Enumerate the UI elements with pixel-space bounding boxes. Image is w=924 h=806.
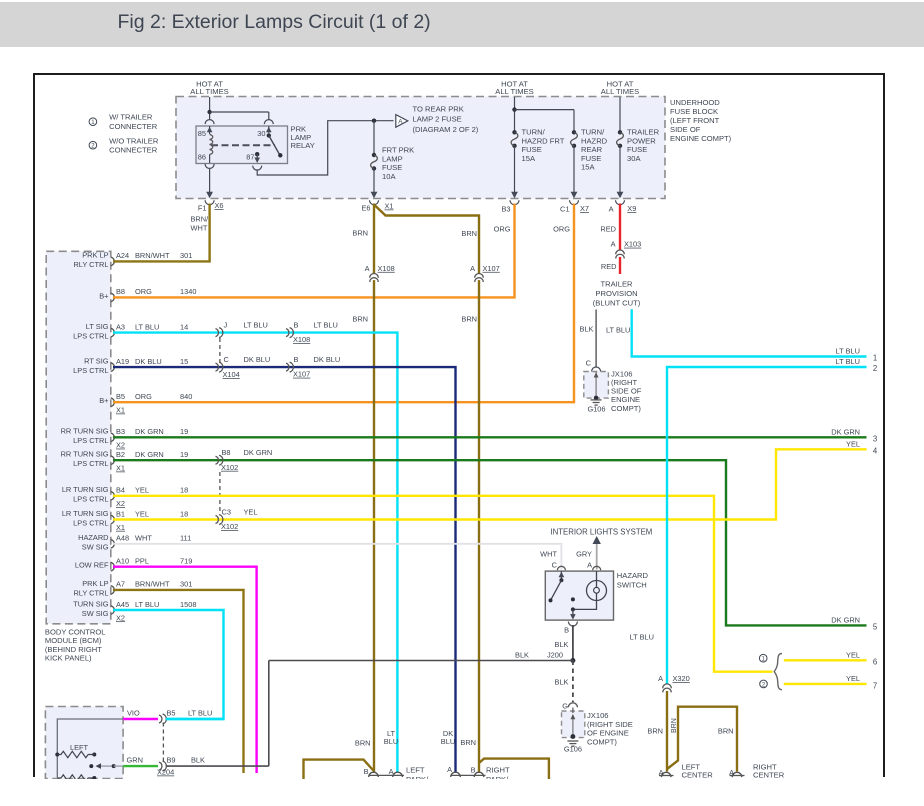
svg-text:BRN: BRN bbox=[460, 738, 476, 747]
svg-text:C1: C1 bbox=[560, 204, 569, 213]
svg-text:A: A bbox=[611, 240, 616, 249]
svg-text:TRAILER: TRAILER bbox=[627, 128, 660, 137]
svg-text:B: B bbox=[564, 626, 569, 635]
svg-text:LAMP 2 FUSE: LAMP 2 FUSE bbox=[413, 115, 462, 124]
svg-text:HAZRD FRT: HAZRD FRT bbox=[522, 136, 565, 145]
svg-text:GRN: GRN bbox=[127, 756, 143, 765]
svg-text:B3: B3 bbox=[501, 204, 510, 213]
svg-text:C: C bbox=[586, 359, 592, 368]
svg-text:B4: B4 bbox=[116, 486, 125, 495]
svg-text:PROVISION: PROVISION bbox=[595, 289, 637, 298]
svg-text:DK GRN: DK GRN bbox=[831, 615, 860, 624]
svg-text:DK BLU: DK BLU bbox=[244, 355, 271, 364]
svg-text:TRAILER: TRAILER bbox=[600, 280, 633, 289]
svg-text:LAMP: LAMP bbox=[382, 154, 403, 163]
svg-text:LT BLU: LT BLU bbox=[836, 357, 860, 366]
svg-text:ORG: ORG bbox=[135, 392, 152, 401]
svg-text:X107: X107 bbox=[293, 370, 310, 379]
svg-text:COMPT): COMPT) bbox=[611, 404, 641, 413]
svg-text:BRN: BRN bbox=[461, 229, 477, 238]
svg-text:BRN/: BRN/ bbox=[191, 214, 210, 223]
svg-text:ENGINE COMPT): ENGINE COMPT) bbox=[670, 134, 732, 143]
svg-text:BRN/WHT: BRN/WHT bbox=[135, 580, 170, 589]
svg-text:B8: B8 bbox=[116, 287, 125, 296]
svg-text:FUSE BLOCK: FUSE BLOCK bbox=[670, 107, 718, 116]
svg-text:REAR: REAR bbox=[581, 145, 603, 154]
svg-text:TURN SIG: TURN SIG bbox=[73, 599, 109, 608]
svg-text:BLK: BLK bbox=[555, 678, 569, 687]
svg-text:X103: X103 bbox=[624, 240, 641, 249]
svg-text:BRN: BRN bbox=[718, 727, 734, 736]
svg-text:ORG: ORG bbox=[494, 225, 511, 234]
svg-text:BRN: BRN bbox=[352, 315, 368, 324]
svg-text:DK BLU: DK BLU bbox=[135, 357, 162, 366]
svg-text:FUSE: FUSE bbox=[382, 163, 402, 172]
svg-text:DK BLU: DK BLU bbox=[314, 355, 341, 364]
svg-text:4: 4 bbox=[873, 446, 878, 455]
svg-text:MODULE (BCM): MODULE (BCM) bbox=[45, 636, 102, 645]
svg-text:3: 3 bbox=[873, 434, 877, 443]
svg-text:X1: X1 bbox=[385, 202, 394, 211]
svg-text:RR TURN SIG: RR TURN SIG bbox=[61, 427, 109, 436]
svg-text:YEL: YEL bbox=[846, 674, 860, 683]
svg-text:DK GRN: DK GRN bbox=[244, 448, 273, 457]
svg-text:A: A bbox=[587, 561, 592, 570]
svg-text:BRN: BRN bbox=[461, 315, 477, 324]
svg-text:LEFT: LEFT bbox=[70, 743, 89, 752]
svg-text:SW SIG: SW SIG bbox=[82, 609, 109, 618]
svg-text:X204: X204 bbox=[157, 768, 174, 777]
svg-text:FUSE: FUSE bbox=[581, 154, 601, 163]
svg-text:301: 301 bbox=[180, 251, 192, 260]
svg-text:C: C bbox=[552, 561, 558, 570]
svg-text:KICK PANEL): KICK PANEL) bbox=[45, 654, 92, 663]
svg-text:A24: A24 bbox=[116, 251, 129, 260]
svg-text:ORG: ORG bbox=[553, 225, 570, 234]
svg-text:LT BLU: LT BLU bbox=[244, 321, 268, 330]
svg-text:(RIGHT SIDE: (RIGHT SIDE bbox=[587, 720, 633, 729]
svg-text:FRT PRK: FRT PRK bbox=[382, 146, 414, 155]
svg-text:GRY: GRY bbox=[576, 550, 592, 559]
svg-text:30A: 30A bbox=[627, 154, 641, 163]
svg-text:19: 19 bbox=[180, 450, 188, 459]
svg-text:A: A bbox=[447, 765, 452, 774]
svg-text:X1: X1 bbox=[116, 523, 125, 532]
svg-text:FUSE: FUSE bbox=[627, 145, 647, 154]
svg-text:B9: B9 bbox=[167, 756, 176, 765]
svg-text:RED: RED bbox=[601, 262, 617, 271]
svg-text:X2: X2 bbox=[116, 441, 125, 450]
svg-text:A19: A19 bbox=[116, 357, 129, 366]
svg-text:PRK LP: PRK LP bbox=[82, 251, 108, 260]
svg-text:719: 719 bbox=[180, 557, 192, 566]
svg-text:BRN: BRN bbox=[671, 718, 678, 733]
svg-text:DK GRN: DK GRN bbox=[135, 450, 164, 459]
svg-text:7: 7 bbox=[873, 681, 877, 690]
svg-text:BRN: BRN bbox=[352, 229, 368, 238]
svg-text:14: 14 bbox=[180, 322, 188, 331]
svg-text:LT BLU: LT BLU bbox=[630, 633, 654, 642]
svg-text:B8: B8 bbox=[222, 448, 231, 457]
svg-text:RLY CTRL: RLY CTRL bbox=[73, 589, 108, 598]
svg-text:B3: B3 bbox=[116, 427, 125, 436]
svg-text:85: 85 bbox=[198, 129, 206, 138]
svg-text:RED: RED bbox=[600, 225, 616, 234]
svg-text:15A: 15A bbox=[522, 154, 536, 163]
svg-text:RLY CTRL: RLY CTRL bbox=[73, 260, 108, 269]
svg-text:HAZRD: HAZRD bbox=[581, 136, 608, 145]
svg-text:LT BLU: LT BLU bbox=[135, 322, 159, 331]
svg-text:X1: X1 bbox=[116, 464, 125, 473]
svg-text:JX106: JX106 bbox=[587, 711, 609, 720]
svg-text:A48: A48 bbox=[116, 534, 129, 543]
svg-text:A45: A45 bbox=[116, 600, 129, 609]
svg-text:ALL TIMES: ALL TIMES bbox=[601, 87, 639, 96]
svg-text:HAZARD: HAZARD bbox=[617, 571, 649, 580]
svg-text:BRN: BRN bbox=[647, 727, 663, 736]
svg-text:15: 15 bbox=[180, 357, 188, 366]
svg-text:A: A bbox=[470, 264, 475, 273]
svg-text:CONNECTER: CONNECTER bbox=[109, 122, 158, 131]
svg-text:18: 18 bbox=[180, 509, 188, 518]
svg-text:E6: E6 bbox=[361, 204, 370, 213]
svg-text:X1: X1 bbox=[116, 406, 125, 415]
svg-text:TURN/: TURN/ bbox=[581, 128, 605, 137]
svg-text:LPS CTRL: LPS CTRL bbox=[73, 366, 108, 375]
svg-text:86: 86 bbox=[198, 153, 206, 162]
svg-text:B1: B1 bbox=[116, 509, 125, 518]
svg-text:BODY CONTROL: BODY CONTROL bbox=[45, 628, 106, 637]
svg-text:SIDE OF: SIDE OF bbox=[670, 125, 701, 134]
svg-text:BRN/WHT: BRN/WHT bbox=[135, 251, 170, 260]
svg-text:BLU: BLU bbox=[441, 737, 455, 746]
svg-text:LT BLU: LT BLU bbox=[606, 326, 630, 335]
svg-text:19: 19 bbox=[180, 427, 188, 436]
svg-text:WHT: WHT bbox=[135, 534, 152, 543]
svg-text:RIGHT: RIGHT bbox=[486, 766, 510, 775]
svg-text:Fig 2: Exterior Lamps Circuit: Fig 2: Exterior Lamps Circuit (1 of 2) bbox=[118, 11, 431, 33]
svg-text:BLK: BLK bbox=[191, 756, 205, 765]
svg-text:CENTER: CENTER bbox=[753, 771, 785, 780]
svg-text:J: J bbox=[224, 321, 228, 330]
svg-text:LT BLU: LT BLU bbox=[836, 347, 860, 356]
svg-text:X108: X108 bbox=[293, 335, 310, 344]
svg-text:X9: X9 bbox=[627, 204, 636, 213]
svg-text:LPS CTRL: LPS CTRL bbox=[73, 436, 108, 445]
svg-text:A3: A3 bbox=[116, 322, 125, 331]
svg-text:WHT: WHT bbox=[540, 550, 557, 559]
svg-text:ORG: ORG bbox=[135, 287, 152, 296]
svg-text:W/ TRAILER: W/ TRAILER bbox=[109, 113, 153, 122]
svg-text:A: A bbox=[659, 768, 664, 777]
svg-text:X2: X2 bbox=[116, 613, 125, 622]
svg-text:ALL TIMES: ALL TIMES bbox=[190, 87, 228, 96]
svg-text:W/O TRAILER: W/O TRAILER bbox=[109, 136, 159, 145]
svg-text:PRK LP: PRK LP bbox=[82, 579, 108, 588]
svg-text:BLK: BLK bbox=[555, 640, 569, 649]
svg-text:18: 18 bbox=[180, 486, 188, 495]
svg-text:LT BLU: LT BLU bbox=[314, 321, 338, 330]
svg-text:BLK: BLK bbox=[580, 325, 594, 334]
svg-text:B: B bbox=[471, 766, 476, 775]
svg-text:CENTER: CENTER bbox=[682, 771, 714, 780]
svg-text:POWER: POWER bbox=[627, 136, 656, 145]
svg-text:YEL: YEL bbox=[846, 650, 860, 659]
svg-text:F1: F1 bbox=[198, 204, 207, 213]
svg-text:G: G bbox=[562, 702, 568, 711]
svg-text:(BEHIND RIGHT: (BEHIND RIGHT bbox=[45, 645, 102, 654]
svg-text:LT SIG: LT SIG bbox=[86, 322, 109, 331]
svg-text:YEL: YEL bbox=[135, 509, 149, 518]
svg-text:LPS CTRL: LPS CTRL bbox=[73, 518, 108, 527]
svg-text:PPL: PPL bbox=[135, 557, 149, 566]
svg-text:X320: X320 bbox=[673, 674, 690, 683]
svg-text:LOW REF: LOW REF bbox=[75, 561, 109, 570]
svg-text:B+: B+ bbox=[99, 396, 108, 405]
svg-text:HAZARD: HAZARD bbox=[78, 533, 108, 542]
svg-text:DK GRN: DK GRN bbox=[831, 427, 860, 436]
svg-text:B5: B5 bbox=[167, 709, 176, 718]
svg-text:BLU: BLU bbox=[384, 737, 398, 746]
svg-text:LT BLU: LT BLU bbox=[188, 709, 212, 718]
svg-text:C: C bbox=[224, 355, 230, 364]
svg-text:SWITCH: SWITCH bbox=[617, 581, 647, 590]
svg-text:X2: X2 bbox=[116, 499, 125, 508]
svg-text:A10: A10 bbox=[116, 557, 129, 566]
svg-text:A: A bbox=[365, 264, 370, 273]
svg-text:15A: 15A bbox=[581, 163, 595, 172]
svg-text:LT BLU: LT BLU bbox=[135, 600, 159, 609]
svg-text:840: 840 bbox=[180, 392, 192, 401]
svg-text:YEL: YEL bbox=[244, 508, 258, 517]
svg-text:RR TURN SIG: RR TURN SIG bbox=[61, 449, 109, 458]
svg-text:B5: B5 bbox=[116, 392, 125, 401]
svg-text:G106: G106 bbox=[564, 745, 582, 754]
svg-text:WHT: WHT bbox=[191, 224, 208, 233]
svg-text:B: B bbox=[294, 355, 299, 364]
svg-text:G106: G106 bbox=[587, 405, 605, 414]
svg-text:TURN/: TURN/ bbox=[522, 128, 546, 137]
svg-text:30: 30 bbox=[257, 129, 265, 138]
svg-text:B: B bbox=[294, 321, 299, 330]
svg-text:LR TURN SIG: LR TURN SIG bbox=[62, 485, 109, 494]
svg-text:FUSE: FUSE bbox=[522, 145, 542, 154]
svg-text:CONNECTER: CONNECTER bbox=[109, 146, 158, 155]
svg-text:2: 2 bbox=[873, 364, 877, 373]
svg-text:COMPT): COMPT) bbox=[587, 737, 617, 746]
svg-text:X102: X102 bbox=[221, 522, 238, 531]
svg-text:C3: C3 bbox=[222, 508, 231, 517]
svg-text:LPS CTRL: LPS CTRL bbox=[73, 495, 108, 504]
svg-text:RT SIG: RT SIG bbox=[84, 356, 109, 365]
svg-text:SW SIG: SW SIG bbox=[82, 543, 109, 552]
svg-text:X102: X102 bbox=[221, 463, 238, 472]
svg-text:DK GRN: DK GRN bbox=[135, 427, 164, 436]
svg-text:A: A bbox=[389, 767, 394, 776]
svg-text:1: 1 bbox=[873, 354, 877, 363]
svg-text:B2: B2 bbox=[116, 450, 125, 459]
svg-text:TO REAR PRK: TO REAR PRK bbox=[413, 104, 464, 113]
svg-text:A7: A7 bbox=[116, 580, 125, 589]
svg-text:UNDERHOOD: UNDERHOOD bbox=[670, 98, 720, 107]
svg-text:X107: X107 bbox=[483, 264, 500, 273]
svg-text:YEL: YEL bbox=[135, 486, 149, 495]
svg-text:LEFT: LEFT bbox=[406, 766, 425, 775]
svg-text:A: A bbox=[609, 204, 614, 213]
svg-text:1340: 1340 bbox=[180, 287, 196, 296]
svg-text:A: A bbox=[658, 674, 663, 683]
svg-text:(LEFT FRONT: (LEFT FRONT bbox=[670, 116, 720, 125]
svg-text:LR TURN SIG: LR TURN SIG bbox=[62, 509, 109, 518]
svg-text:111: 111 bbox=[180, 534, 191, 543]
svg-text:(DIAGRAM 2 OF 2): (DIAGRAM 2 OF 2) bbox=[413, 125, 479, 134]
svg-text:RELAY: RELAY bbox=[291, 141, 315, 150]
svg-text:LPS CTRL: LPS CTRL bbox=[73, 459, 108, 468]
svg-text:5: 5 bbox=[873, 622, 878, 631]
svg-text:(BLUNT CUT): (BLUNT CUT) bbox=[593, 298, 641, 307]
svg-text:ALL TIMES: ALL TIMES bbox=[495, 87, 533, 96]
svg-text:VIO: VIO bbox=[127, 709, 140, 718]
svg-text:LPS CTRL: LPS CTRL bbox=[73, 331, 108, 340]
svg-text:10A: 10A bbox=[382, 172, 396, 181]
svg-text:J200: J200 bbox=[547, 651, 563, 660]
svg-text:B+: B+ bbox=[99, 291, 108, 300]
svg-text:X7: X7 bbox=[580, 204, 589, 213]
svg-text:X108: X108 bbox=[378, 264, 395, 273]
svg-text:YEL: YEL bbox=[846, 439, 860, 448]
svg-text:1508: 1508 bbox=[180, 600, 196, 609]
svg-text:B: B bbox=[364, 767, 369, 776]
svg-text:X104: X104 bbox=[223, 370, 240, 379]
svg-text:BLK: BLK bbox=[515, 651, 529, 660]
svg-text:A: A bbox=[729, 768, 734, 777]
svg-text:INTERIOR LIGHTS SYSTEM: INTERIOR LIGHTS SYSTEM bbox=[551, 528, 653, 537]
svg-text:A: A bbox=[398, 119, 403, 126]
svg-text:X6: X6 bbox=[215, 201, 224, 210]
svg-text:301: 301 bbox=[180, 580, 192, 589]
svg-text:87: 87 bbox=[246, 153, 254, 162]
svg-text:BRN: BRN bbox=[355, 739, 371, 748]
svg-text:OF ENGINE: OF ENGINE bbox=[587, 729, 629, 738]
svg-text:6: 6 bbox=[873, 657, 877, 666]
